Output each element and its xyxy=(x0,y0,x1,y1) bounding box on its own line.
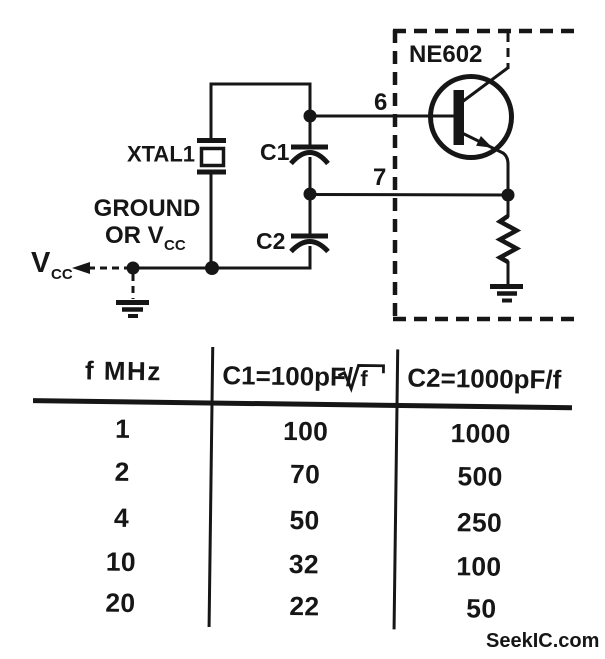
table data column f xyxy=(105,414,138,618)
table data column C2 xyxy=(448,418,511,624)
svg-text:f: f xyxy=(360,366,368,391)
svg-text:50: 50 xyxy=(289,505,319,535)
node Vcc junction xyxy=(127,262,140,275)
node crystal bottom junction xyxy=(205,261,219,275)
Vcc arrow xyxy=(72,262,128,274)
svg-text:6: 6 xyxy=(374,89,387,116)
table column divider 2 xyxy=(394,349,398,629)
svg-text:100: 100 xyxy=(283,416,329,447)
transistor Q1 xyxy=(431,67,512,196)
svg-text:500: 500 xyxy=(457,461,503,492)
capacitor C1 xyxy=(291,147,328,164)
label Vcc left xyxy=(31,247,73,283)
capacitor C2 xyxy=(291,236,328,252)
ground (Vcc node) xyxy=(116,303,149,317)
wire collector dashed xyxy=(507,33,510,68)
node pin6 junction xyxy=(304,110,317,123)
wire crystal lower lead xyxy=(210,174,213,269)
node pin7 junction xyxy=(304,188,317,201)
svg-text:C2=1000pF/f: C2=1000pF/f xyxy=(407,363,562,395)
svg-text:OR V: OR V xyxy=(105,222,164,249)
wire top (crystal top to C-branch top) xyxy=(210,83,312,86)
label OR Vcc xyxy=(105,222,186,254)
svg-text:CC: CC xyxy=(51,266,73,283)
table header rule xyxy=(33,401,572,408)
svg-text:250: 250 xyxy=(457,507,503,538)
svg-text:22: 22 xyxy=(289,591,319,621)
svg-text:C1: C1 xyxy=(260,139,290,165)
svg-text:100: 100 xyxy=(456,551,502,582)
svg-text:1: 1 xyxy=(115,414,130,444)
svg-text:XTAL1: XTAL1 xyxy=(127,142,195,167)
wire bottom (Vcc node to C-branch bottom) xyxy=(133,267,312,270)
svg-text:2: 2 xyxy=(114,457,129,487)
wire C-branch lower xyxy=(309,246,312,268)
wire pin 6 xyxy=(310,115,456,118)
svg-text:f MHz: f MHz xyxy=(85,355,162,386)
IC U1 NE602 dashed outline xyxy=(393,30,575,320)
svg-text:C2: C2 xyxy=(256,228,285,254)
svg-text:SeekIC.com: SeekIC.com xyxy=(486,630,599,652)
svg-text:4: 4 xyxy=(114,503,129,533)
svg-text:20: 20 xyxy=(105,588,135,618)
svg-text:70: 70 xyxy=(290,459,320,489)
table data column C1 xyxy=(281,416,329,622)
svg-text:50: 50 xyxy=(466,593,496,623)
svg-text:C1=100pF/: C1=100pF/ xyxy=(222,360,353,392)
table header C1=100pF/sqrt(f) xyxy=(222,360,383,392)
wire dashed to ground xyxy=(132,274,135,299)
svg-text:10: 10 xyxy=(106,547,136,577)
resistor emitter xyxy=(500,195,517,286)
svg-text:1000: 1000 xyxy=(450,418,511,449)
node emitter junction xyxy=(502,189,515,202)
svg-text:NE602: NE602 xyxy=(409,41,482,68)
crystal XTAL1 xyxy=(197,141,226,173)
svg-text:GROUND: GROUND xyxy=(94,195,201,222)
wire C-branch upper xyxy=(309,83,312,148)
svg-text:7: 7 xyxy=(373,164,386,191)
svg-text:V: V xyxy=(31,247,51,279)
wire crystal upper lead xyxy=(210,83,213,142)
svg-text:CC: CC xyxy=(164,237,186,254)
table column divider 1 xyxy=(209,347,213,627)
ground (emitter) xyxy=(490,287,523,301)
wire C-branch middle xyxy=(309,157,312,236)
wire pin 7 xyxy=(310,193,508,197)
svg-text:32: 32 xyxy=(289,549,319,579)
